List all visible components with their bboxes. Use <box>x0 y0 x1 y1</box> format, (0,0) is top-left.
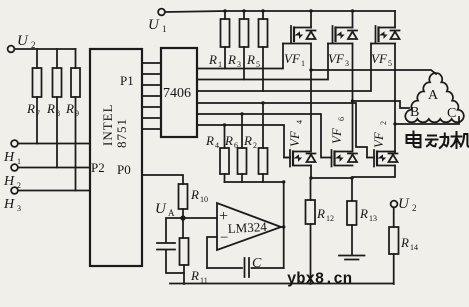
svg-text:6: 6 <box>234 141 238 150</box>
wire gate line VF6 <box>197 114 331 158</box>
watermark <box>287 270 352 288</box>
resistor R5 <box>259 19 268 47</box>
svg-text:P2: P2 <box>91 160 105 175</box>
wire op-amp output <box>281 226 284 228</box>
label R1 <box>208 52 222 69</box>
motor windings (delta) <box>405 73 463 122</box>
transistor VF1 <box>283 26 316 44</box>
wire half-bridge column 2 <box>352 11 354 150</box>
wire +U1 top rail <box>165 11 395 12</box>
svg-text:VF: VF <box>371 51 388 66</box>
svg-text:6: 6 <box>337 117 346 121</box>
resistor R1 <box>221 19 230 47</box>
svg-text:R: R <box>208 52 217 67</box>
svg-text:C: C <box>447 106 456 121</box>
resistor R11 <box>180 238 189 265</box>
svg-text:13: 13 <box>369 214 377 223</box>
terminal U2 top-left <box>8 46 15 53</box>
svg-text:7406: 7406 <box>163 86 191 101</box>
resistor R6 <box>238 148 247 174</box>
svg-text:A: A <box>168 208 175 218</box>
svg-text:VF: VF <box>287 130 302 147</box>
op-amp U? microcontroller 8751 <box>90 49 142 266</box>
wire H1 to P2 <box>18 143 90 145</box>
terminal H2 <box>11 164 18 171</box>
svg-text:R: R <box>316 206 325 221</box>
label R9 <box>65 101 79 118</box>
wire H3 to P2 <box>18 190 90 192</box>
svg-text:R: R <box>46 101 55 116</box>
svg-text:8751: 8751 <box>114 118 129 148</box>
svg-text:3: 3 <box>17 204 21 213</box>
wire inverting input <box>207 237 217 268</box>
svg-text:C: C <box>252 256 262 271</box>
node U2 label <box>17 33 36 50</box>
op-amp LM324 <box>217 203 281 250</box>
svg-text:R: R <box>243 133 252 148</box>
resistor R2 <box>259 148 268 174</box>
wire phase A <box>311 70 436 74</box>
svg-text:4: 4 <box>215 141 219 150</box>
resistor R14 <box>389 227 399 254</box>
svg-text:2: 2 <box>379 121 388 125</box>
svg-text:2: 2 <box>31 40 36 50</box>
capacitor C <box>245 258 250 277</box>
svg-text:4: 4 <box>295 120 304 124</box>
label R5 <box>246 52 260 69</box>
svg-text:R: R <box>26 101 35 116</box>
terminal U2 right <box>391 201 398 208</box>
transistor VF5 <box>371 26 400 44</box>
svg-text:14: 14 <box>410 243 418 252</box>
svg-text:R: R <box>205 133 214 148</box>
terminal H3 <box>11 187 18 194</box>
transistor VF4 <box>284 150 316 167</box>
terminal H1 <box>11 140 18 147</box>
svg-text:2: 2 <box>253 141 257 150</box>
svg-text:B: B <box>410 105 419 120</box>
wire <box>75 49 77 191</box>
resistor R7 <box>33 68 42 97</box>
svg-text:R: R <box>190 268 199 283</box>
resistor R12 <box>306 200 316 224</box>
wire source rail low side <box>311 166 395 179</box>
svg-text:INTEL: INTEL <box>100 103 115 146</box>
svg-text:1: 1 <box>301 59 305 68</box>
wire phase B <box>353 101 410 108</box>
svg-text:7: 7 <box>36 109 40 118</box>
svg-text:U: U <box>17 33 29 49</box>
wire H2 to P2 <box>18 167 90 169</box>
wire gate line VF1 <box>197 44 283 69</box>
svg-text:A: A <box>428 88 439 103</box>
svg-text:R: R <box>400 235 409 250</box>
svg-text:R: R <box>227 52 236 67</box>
node UA <box>155 201 175 218</box>
wire <box>36 49 38 144</box>
svg-text:R: R <box>359 206 368 221</box>
svg-text:ybx8.cn: ybx8.cn <box>287 270 352 288</box>
svg-text:5: 5 <box>388 59 392 68</box>
svg-text:H: H <box>3 150 15 165</box>
wire bus 8751 to 7406 (7 rungs) <box>142 63 161 129</box>
label R6 <box>224 133 238 150</box>
node C <box>447 106 456 121</box>
svg-text:2: 2 <box>412 203 417 213</box>
transistor VF6 <box>331 150 357 167</box>
svg-text:U: U <box>398 196 410 212</box>
label R8 <box>46 101 60 118</box>
svg-text:1: 1 <box>162 24 167 34</box>
svg-text:P1: P1 <box>120 73 134 88</box>
wire phase C <box>395 117 459 124</box>
node A <box>428 88 439 103</box>
wire U2 rail <box>15 48 76 50</box>
label R3 <box>227 52 241 69</box>
svg-text:VF: VF <box>284 51 301 66</box>
svg-text:12: 12 <box>326 214 334 223</box>
resistor R8 <box>53 68 62 97</box>
svg-text:R: R <box>224 133 233 148</box>
resistor R3 <box>240 19 249 47</box>
svg-text:P0: P0 <box>117 162 131 177</box>
svg-text:R: R <box>65 101 74 116</box>
node B <box>410 105 419 120</box>
terminal U1 <box>158 9 165 16</box>
wire gate resistors to op-amp output <box>225 182 284 268</box>
label R4 <box>205 133 219 150</box>
ground <box>339 256 365 260</box>
label R2 <box>243 133 257 150</box>
svg-text:8: 8 <box>56 109 60 118</box>
capacitor (UA filter) <box>157 218 184 273</box>
wire gate line VF3 <box>197 44 328 80</box>
svg-text:VF: VF <box>329 127 344 144</box>
svg-text:LM324: LM324 <box>227 219 267 236</box>
svg-text:H: H <box>3 197 15 212</box>
label motor 电动机 <box>407 132 469 149</box>
wire gate line VF5 <box>197 44 371 92</box>
svg-text:VF: VF <box>371 131 386 148</box>
wire bottom rail <box>170 283 394 285</box>
svg-text:R: R <box>190 187 199 202</box>
wire gate line VF2 <box>197 103 367 158</box>
svg-text:U: U <box>148 17 160 33</box>
resistor R9 <box>71 68 80 97</box>
wire feedback with capacitor C <box>207 267 284 269</box>
svg-text:10: 10 <box>200 195 208 204</box>
resistor R4 <box>220 148 229 174</box>
wire gate line VF4 <box>197 125 289 158</box>
resistor R10 <box>179 184 188 209</box>
wire half-bridge column 3 <box>394 11 396 152</box>
buffer 7406 <box>161 48 197 137</box>
wire P0 to R10 <box>142 175 183 184</box>
wire half-bridge column 1 <box>310 11 312 150</box>
wire <box>56 49 58 168</box>
svg-text:U: U <box>155 201 167 217</box>
svg-text:3: 3 <box>345 59 349 68</box>
svg-text:9: 9 <box>75 109 79 118</box>
resistor R13 <box>347 201 357 225</box>
svg-text:R: R <box>246 52 255 67</box>
label R7 <box>26 101 40 118</box>
transistor VF3 <box>328 26 357 44</box>
svg-text:VF: VF <box>328 51 345 66</box>
transistor VF2 <box>367 150 398 167</box>
wire UA to op-amp <box>183 217 217 219</box>
